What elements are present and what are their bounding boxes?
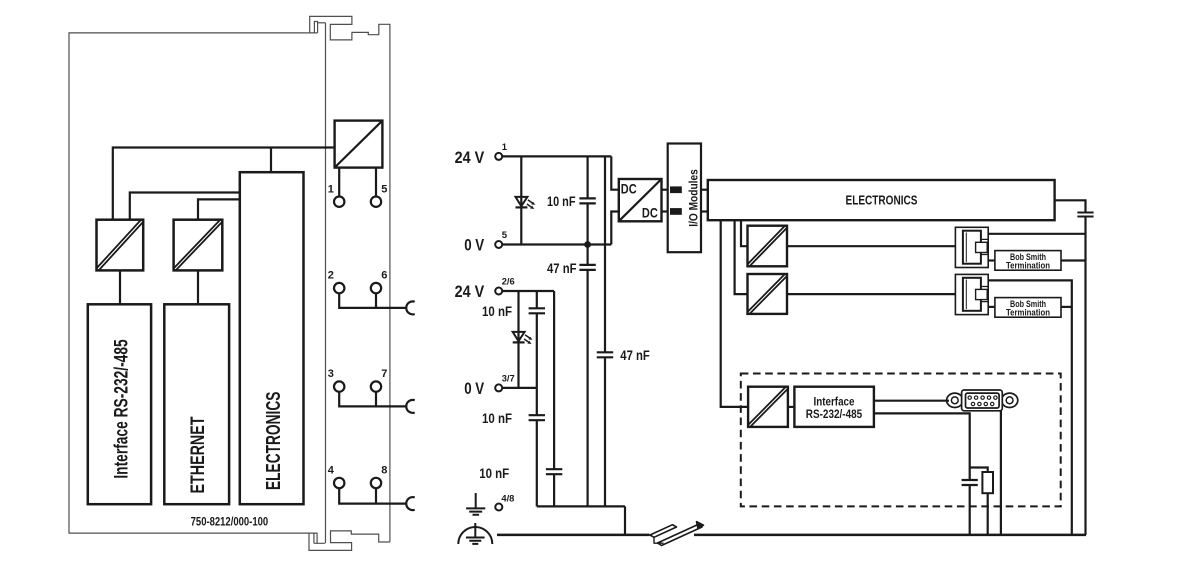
housing bottom small notch	[314, 533, 325, 543]
wire isolator2 to rj45 jack2	[787, 293, 955, 295]
dcdc output stub +	[662, 189, 668, 191]
wire interface return with capacitor	[874, 413, 970, 535]
wire jack1 top to drop	[988, 233, 1085, 235]
svg-text:Interface RS-232/-485: Interface RS-232/-485	[111, 339, 133, 478]
svg-text:ELECTRONICS: ELECTRONICS	[262, 392, 285, 490]
svg-text:2/6: 2/6	[502, 277, 515, 288]
db9 connector	[947, 390, 1018, 411]
svg-text:Termination: Termination	[1006, 308, 1050, 318]
svg-text:10 nF: 10 nF	[479, 465, 509, 481]
housing top small notch	[314, 22, 317, 33]
dcdc output stub -	[662, 210, 668, 212]
isolator 1 (ethernet ch1)	[748, 226, 788, 267]
wire 0V field rail	[502, 387, 536, 389]
wire dcdc B to electronics	[198, 199, 240, 219]
svg-text:4/8: 4/8	[501, 494, 514, 505]
contact pin -	[670, 208, 682, 215]
contact 7	[371, 381, 381, 391]
wire 24V rail	[502, 155, 611, 157]
svg-text:0 V: 0 V	[464, 379, 485, 398]
dc-dc converter U1	[619, 179, 662, 221]
svg-text:DC: DC	[621, 181, 637, 196]
wire 24V to dcdc input +	[611, 156, 619, 189]
wire isolator3 to interface box	[788, 406, 795, 408]
contact 8	[371, 478, 381, 488]
signal ground symbol	[466, 493, 485, 515]
contact 2	[334, 283, 344, 293]
capacitor sub-bus	[537, 506, 625, 535]
capacitor 47nF branch 1	[579, 245, 595, 507]
svg-text:7: 7	[381, 368, 387, 380]
svg-text:6: 6	[381, 270, 387, 282]
capacitor 10nF branch 2 (24V-0V)	[529, 291, 545, 388]
isolator 2 (ethernet ch2)	[748, 274, 788, 314]
capacitor 10nF branch 3 (24V-ground)	[546, 291, 562, 506]
svg-text:0 V: 0 V	[464, 235, 485, 254]
terminal 1	[495, 153, 502, 160]
svg-text:ETHERNET: ETHERNET	[187, 416, 209, 493]
wire jack2 to bob smith 2	[988, 306, 995, 308]
svg-text:8: 8	[381, 465, 387, 477]
svg-text:1: 1	[328, 183, 334, 195]
wire dcdc A pin2 to electronics	[130, 193, 240, 220]
svg-text:I/O Modules: I/O Modules	[686, 169, 700, 227]
dc-dc converter B (module)	[174, 220, 223, 271]
socket symbol row 4	[406, 497, 414, 510]
svg-text:750-8212/000-100: 750-8212/000-100	[191, 515, 269, 529]
contact 3	[334, 381, 344, 391]
capacitor serial termination	[962, 480, 978, 485]
svg-text:ELECTRONICS: ELECTRONICS	[846, 193, 918, 208]
isolator 3 (serial)	[748, 387, 788, 427]
housing top tab and latch profile	[310, 16, 390, 542]
contact pin +	[670, 186, 682, 193]
housing rail left vertical	[325, 23, 327, 544]
rj45 jack 2	[955, 274, 988, 314]
svg-text:Termination: Termination	[1006, 261, 1050, 271]
capacitor at electronics output	[1077, 213, 1093, 217]
wire 24V field rail	[502, 290, 554, 292]
svg-text:5: 5	[502, 230, 508, 241]
wire stub to electronics box top	[270, 148, 272, 173]
main ground bus	[497, 534, 1086, 537]
dc-dc converter A (module)	[97, 220, 144, 271]
wire bob smith 2 to drop B	[1061, 306, 1072, 308]
capacitor 47nF branch 2 (24V to ground bus)	[597, 156, 613, 506]
svg-text:3: 3	[328, 368, 334, 380]
svg-text:3/7: 3/7	[502, 374, 515, 385]
row 3 bus to next module	[339, 387, 406, 407]
housing notch link	[318, 22, 326, 24]
contact 6	[371, 283, 381, 293]
wire 0V to dcdc input -	[611, 212, 619, 245]
contact 4	[334, 478, 344, 488]
svg-text:4: 4	[328, 465, 335, 477]
resistor serial termination	[970, 468, 988, 535]
interface RS-232/-485 box (module)	[88, 304, 151, 504]
wire isolator1 to rj45 jack1	[787, 245, 955, 247]
terminal 4/8	[495, 504, 502, 511]
wire db9 shield to bus	[1000, 411, 1002, 535]
wire 0V rail	[502, 243, 611, 245]
svg-text:RS-232/-485: RS-232/-485	[806, 407, 863, 421]
svg-text:24 V: 24 V	[455, 282, 485, 301]
LED 2 branch wire	[517, 291, 519, 388]
svg-text:5: 5	[381, 183, 387, 195]
electronics box (module)	[240, 172, 304, 504]
stub to contact 1	[338, 168, 340, 202]
terminal 5	[495, 241, 502, 248]
svg-text:DC: DC	[642, 206, 658, 221]
LED 1	[516, 197, 536, 209]
capacitor 10nF branch 1	[579, 156, 595, 244]
row 2 bus to next module	[339, 288, 406, 308]
terminal 3/7	[495, 384, 502, 391]
svg-text:24 V: 24 V	[455, 148, 485, 167]
rj45 jack 1	[955, 227, 988, 267]
contact 1	[334, 197, 344, 207]
module housing outline 750-8212	[69, 16, 390, 550]
socket symbol row 2	[406, 301, 414, 314]
interface RS-232/-485 box	[794, 387, 874, 427]
bob smith termination 2	[995, 298, 1061, 318]
dc-dc converter rail (power supply)	[335, 121, 383, 168]
socket symbol row 3	[406, 400, 414, 413]
wire bob smith 1 to drop	[1061, 259, 1086, 261]
electronics box U2	[708, 180, 1055, 220]
svg-text:10 nF: 10 nF	[482, 303, 512, 319]
row 4 bus to next module	[339, 483, 406, 504]
stub to contact 5	[375, 168, 377, 202]
earth ground symbol with shield arc	[458, 523, 492, 544]
junction node 0V	[584, 241, 591, 248]
stub I/O to electronics +	[701, 189, 708, 191]
contact 5	[371, 197, 381, 207]
capacitor 10nF branch 2b (0V-ground)	[529, 388, 545, 507]
wire electronics to interface isolator	[721, 220, 748, 407]
I/O modules box	[668, 144, 701, 253]
LED 2	[513, 332, 533, 344]
stub I/O to electronics -	[701, 210, 708, 212]
svg-text:10 nF: 10 nF	[547, 193, 576, 209]
ethernet box (module)	[164, 304, 229, 504]
din rail 3d symbol	[650, 519, 704, 547]
svg-text:47 nF: 47 nF	[547, 260, 577, 276]
dashed isolation boundary box	[741, 374, 1061, 507]
housing left/top/bottom edges	[69, 33, 317, 533]
wire jack1 to bob smith 1	[988, 259, 995, 261]
svg-text:10 nF: 10 nF	[482, 410, 512, 426]
svg-text:2: 2	[328, 270, 334, 282]
wire electronics to isolator 2	[735, 220, 748, 294]
svg-text:1: 1	[502, 142, 508, 153]
wire 24V feed inside module	[113, 148, 335, 220]
wire dcdc B to ethernet box	[197, 270, 199, 304]
wire electronics to right drop with capacitor	[1055, 200, 1086, 535]
wire interface to db9	[874, 400, 949, 402]
wire dcdc A to interface box	[119, 270, 121, 304]
LED 1 branch wire	[520, 156, 522, 244]
housing bottom tab and latch profile	[309, 531, 390, 551]
wire electronics to isolator 1	[741, 220, 748, 246]
terminal 2/6	[495, 288, 502, 295]
wire jack2 top to drop B	[988, 280, 1072, 535]
bob smith termination 1	[995, 251, 1061, 271]
svg-text:47 nF: 47 nF	[620, 347, 650, 363]
